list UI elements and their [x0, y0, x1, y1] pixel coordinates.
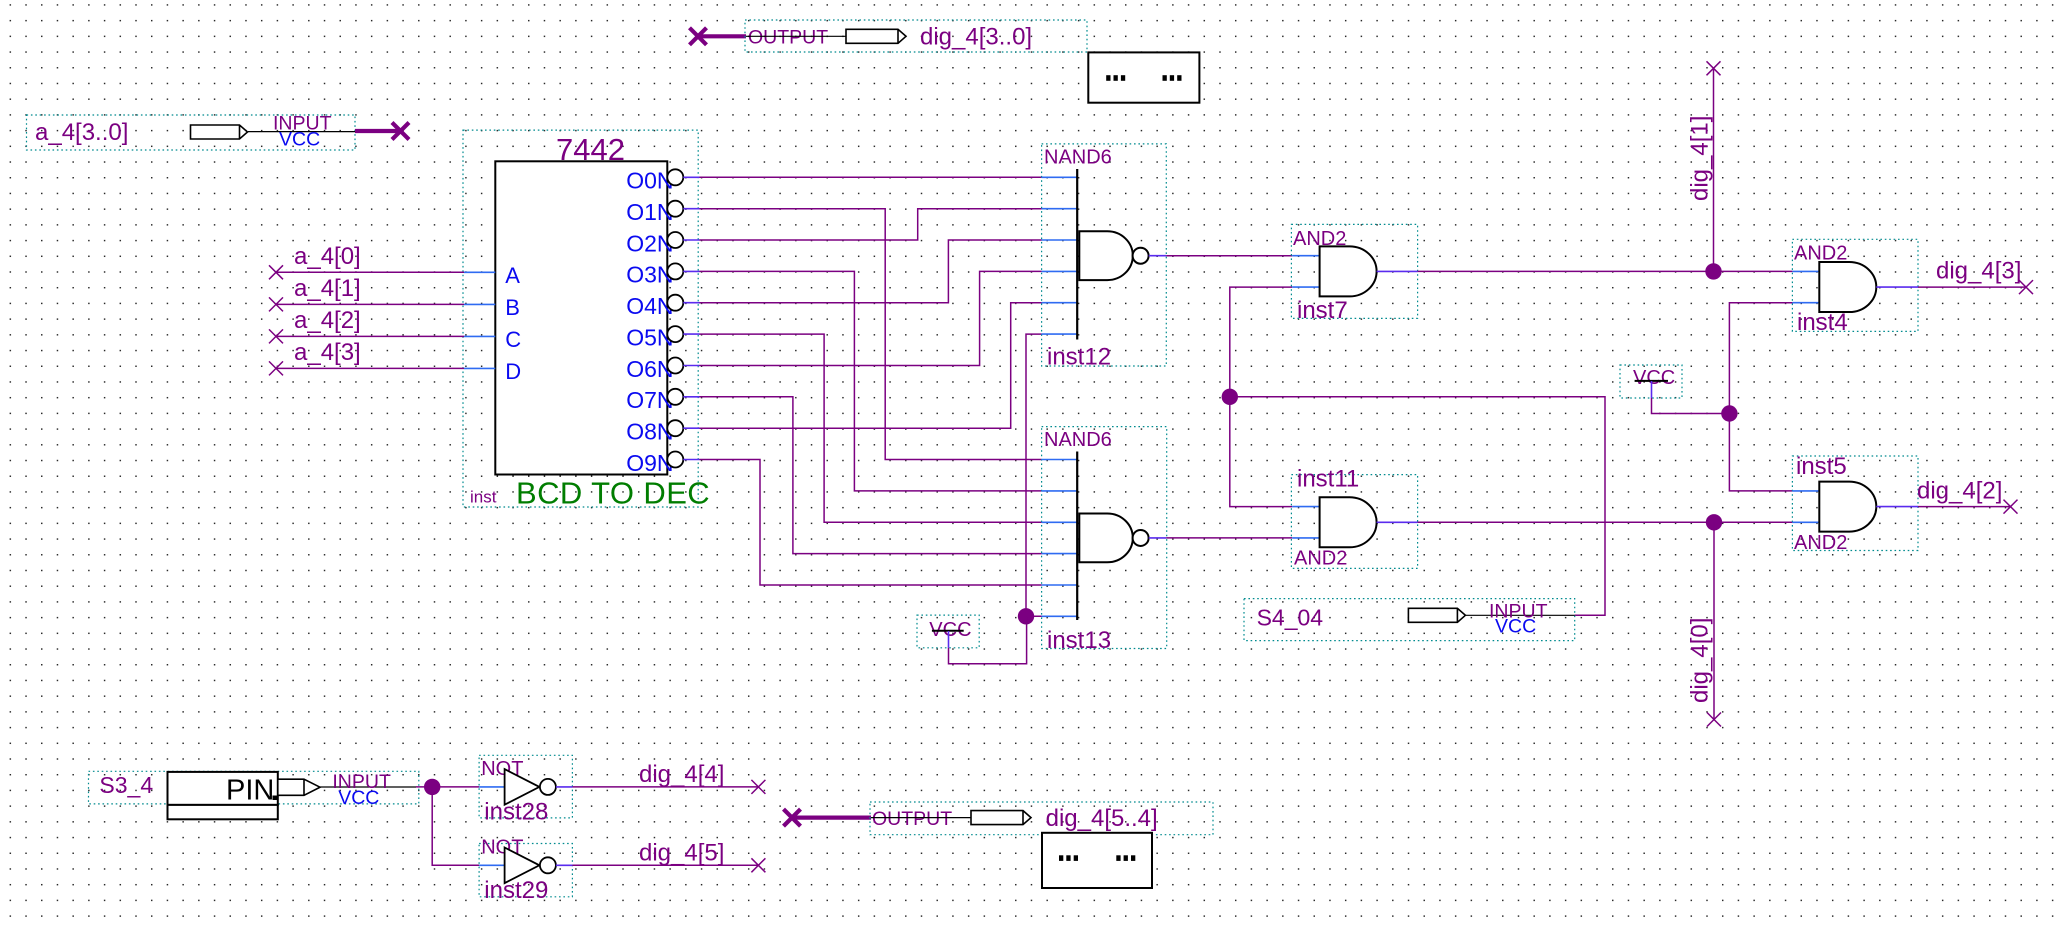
output stub O8N	[683, 427, 699, 429]
junction S3_4 node	[424, 779, 440, 795]
output stub O9N	[683, 459, 699, 461]
svg-text:O1N: O1N	[626, 199, 673, 225]
inst28 input stub	[479, 786, 505, 788]
wire O7N to inst13 pin4	[700, 397, 1042, 554]
svg-text:dig_4[5]: dig_4[5]	[639, 839, 724, 866]
wire dig_4[2]	[1918, 506, 2011, 508]
svg-text:VCC: VCC	[1495, 616, 1536, 638]
output bubble O5N	[667, 326, 683, 342]
inst12 input stub pin4	[1042, 270, 1078, 272]
wire node S4_04 to inst7 pin2 and inst11 pin1	[1230, 287, 1292, 507]
bus stub wire dig_4[3..0]	[699, 34, 746, 38]
output stub O7N	[683, 396, 699, 398]
7442 decoder body	[495, 161, 667, 474]
svg-text:O2N: O2N	[626, 230, 673, 256]
inst5 output stub	[1876, 506, 1918, 508]
svg-text:OUTPUT: OUTPUT	[748, 27, 828, 49]
bus fan-out box dig_4[5..4]	[1042, 833, 1152, 888]
svg-text:dig_4[0]: dig_4[0]	[1687, 618, 1714, 703]
svg-text:dig_4[5..4]: dig_4[5..4]	[1046, 805, 1158, 832]
wire a_4[0] to port A	[276, 271, 464, 273]
output pin shape dig_4[3..0]	[846, 29, 906, 43]
svg-text:BCD TO DEC: BCD TO DEC	[516, 476, 710, 511]
and gate inst4	[1819, 262, 1876, 312]
input stub C	[464, 335, 495, 337]
input stub B	[464, 303, 495, 305]
svg-text:a_4[3..0]: a_4[3..0]	[35, 119, 128, 146]
wire dig_4[0] dropper	[1713, 522, 1715, 719]
wire O1N to inst13 pin1	[700, 209, 1042, 460]
input stub A	[464, 271, 495, 273]
output stub O6N	[683, 365, 699, 367]
inst4 input stubs	[1792, 270, 1819, 272]
inst12 input stub pin6	[1042, 333, 1078, 335]
AND2 inst4 selection box	[1792, 239, 1918, 331]
PIN arrow shape S3_4	[278, 779, 320, 795]
and gate inst11	[1320, 497, 1377, 547]
wire O3N to inst13 pin2	[700, 271, 1042, 491]
inst13 input stub pin3	[1042, 521, 1078, 523]
wire a_4[2] to port C	[276, 335, 464, 337]
svg-text:D: D	[505, 359, 521, 384]
svg-text:S3_4: S3_4	[99, 772, 153, 798]
svg-text:inst28: inst28	[484, 799, 548, 826]
svg-text:a_4[3]: a_4[3]	[294, 339, 361, 366]
AND2 inst7 selection box	[1291, 224, 1417, 318]
wire dig_4[5]	[572, 864, 758, 866]
wire VCC (right) to junction	[1652, 398, 1730, 414]
svg-text:O3N: O3N	[626, 262, 673, 288]
wire dig_4[1] riser	[1713, 68, 1715, 271]
output bubble O2N	[667, 232, 683, 248]
svg-text:NAND6: NAND6	[1044, 147, 1112, 169]
bus stub wire dig_4[5..4]	[793, 815, 871, 819]
wire dig_4[3]	[1918, 286, 2026, 288]
inst13 input stub pin5	[1042, 584, 1078, 586]
x mark a_4[3]	[269, 361, 283, 375]
wire a_4[3] to port D	[276, 367, 464, 369]
bus stub wire a_4[3..0]	[355, 129, 398, 133]
inst13 output stub	[1149, 537, 1167, 539]
x mark dig_4[4]	[751, 780, 765, 794]
inst29 input stub	[479, 864, 505, 866]
pin lead dig_4[5..4]	[871, 817, 971, 819]
pin lead S3_4	[320, 786, 416, 788]
input pin shape a_4[3..0]	[191, 125, 248, 139]
wire O6N to inst12 pin4	[700, 271, 1042, 365]
wire O4N to inst12 pin3	[700, 240, 1042, 303]
inst28 output stub	[556, 786, 573, 788]
x mark a_4[2]	[269, 329, 283, 343]
inst13 input stub pin1	[1042, 459, 1078, 461]
svg-text:O5N: O5N	[626, 324, 673, 350]
svg-text:a_4[1]: a_4[1]	[294, 275, 361, 302]
VCC stub (left)	[948, 631, 950, 648]
svg-text:S4_04: S4_04	[1257, 605, 1324, 631]
inst29 output stub	[556, 864, 573, 866]
output stub O4N	[683, 302, 699, 304]
VCC bar (right)	[1635, 380, 1668, 382]
wire inst13 out to inst11 pin2	[1166, 537, 1292, 539]
inst13 input stub pin6	[1042, 615, 1078, 617]
svg-text:inst7: inst7	[1297, 297, 1348, 324]
output pin shape dig_4[5..4]	[971, 811, 1031, 825]
x mark a_4[0]	[269, 265, 283, 279]
wire O8N to inst12 pin5	[700, 303, 1042, 429]
svg-text:PIN: PIN	[226, 775, 274, 807]
junction node S4_04	[1222, 389, 1238, 405]
svg-text:VCC: VCC	[338, 787, 379, 809]
pin lead dig_4[3..0]	[746, 35, 846, 37]
x mark dig_4[2]	[2004, 500, 2018, 514]
svg-text:AND2: AND2	[1794, 532, 1847, 554]
output bubble O6N	[667, 358, 683, 374]
inst13 input stub pin4	[1042, 553, 1078, 555]
svg-text:inst5: inst5	[1796, 453, 1847, 480]
output pin symbol dig_4[5..4] selection box	[870, 802, 1213, 835]
svg-text:a_4[0]: a_4[0]	[294, 243, 361, 270]
NOT inst28 selection box	[479, 755, 572, 818]
svg-text:O8N: O8N	[626, 419, 673, 445]
output pin symbol dig_4[3..0] selection box	[745, 20, 1087, 52]
svg-text:AND2: AND2	[1294, 548, 1347, 570]
input pin shape S4_04	[1408, 608, 1465, 622]
x mark dig_4[3..0] bus end	[690, 28, 707, 45]
VCC symbol selection box (left)	[917, 615, 979, 648]
inst12 input stub pin1	[1042, 176, 1078, 178]
VCC bar (left)	[932, 630, 964, 632]
input pin symbol S3_4 selection box	[89, 771, 419, 804]
pin lead S4_04	[1466, 614, 1575, 616]
nand gate inst13	[1077, 452, 1148, 621]
wire O0N to inst12 pin1	[700, 176, 1042, 178]
bus fan-out box dig_4[3..0]	[1088, 52, 1199, 102]
output stub O5N	[683, 333, 699, 335]
output stub O3N	[683, 270, 699, 272]
junction dig_4[1]	[1705, 263, 1721, 279]
inst12 output stub	[1149, 255, 1167, 257]
x mark dig_4[0]	[1707, 713, 1721, 727]
output stub O1N	[683, 208, 699, 210]
junction VCC right node	[1721, 405, 1737, 421]
svg-text:O0N: O0N	[626, 168, 673, 194]
x mark dig_4[5..4] bus end	[784, 809, 801, 826]
svg-text:dig_4[2]: dig_4[2]	[1917, 478, 2002, 505]
and gate inst5	[1819, 482, 1876, 532]
not gate inst29	[505, 848, 556, 884]
wire S4_04 input to junction	[1230, 397, 1605, 616]
inst7 output stub	[1377, 270, 1418, 272]
svg-text:inst: inst	[470, 488, 497, 507]
output bubble O9N	[667, 452, 683, 468]
output bubble O0N	[667, 169, 683, 185]
wire inst11 out to inst5 pin2	[1418, 521, 1793, 523]
svg-text:inst29: inst29	[484, 877, 548, 904]
output bubble O8N	[667, 420, 683, 436]
svg-text:VCC: VCC	[279, 129, 320, 151]
VCC stub (right)	[1651, 381, 1653, 398]
AND2 inst11 selection box	[1291, 475, 1417, 569]
inst11 input stubs	[1292, 506, 1319, 508]
x mark dig_4[5]	[751, 858, 765, 872]
wire a_4[1] to port B	[276, 303, 464, 305]
pin lead a_4[3..0]	[248, 131, 355, 133]
input stub D	[464, 367, 495, 369]
output bubble O1N	[667, 201, 683, 217]
inst11 output stub	[1377, 521, 1418, 523]
NAND6 inst12 selection box	[1042, 144, 1167, 366]
inst12 input stub pin2	[1042, 208, 1078, 210]
wire VCC node to inst4 pin2 and inst5 pin1	[1729, 303, 1792, 491]
svg-text:O6N: O6N	[626, 356, 673, 382]
PIN component body S3_4	[168, 772, 278, 805]
VCC symbol selection box (right)	[1620, 365, 1682, 398]
not gate inst28	[505, 769, 556, 805]
svg-text:inst11: inst11	[1297, 466, 1359, 493]
wire inst12 out to inst7 pin1	[1166, 255, 1292, 257]
x mark dig_4[1]	[1707, 61, 1721, 75]
svg-text:7442: 7442	[556, 132, 625, 167]
svg-text:NAND6: NAND6	[1044, 429, 1112, 451]
wire O9N to inst13 pin5	[700, 460, 1042, 586]
svg-text:B: B	[505, 295, 520, 320]
svg-text:a_4[2]: a_4[2]	[294, 307, 361, 334]
input pin symbol S4_04 selection box	[1244, 599, 1575, 641]
x mark dig_4[3]	[2019, 280, 2033, 294]
wire O2N to inst12 pin2	[700, 209, 1042, 240]
wire S3_4 node to inst29	[432, 787, 479, 865]
wire dig_4[4]	[572, 786, 758, 788]
junction dig_4[0]	[1706, 514, 1722, 530]
wire S3_4 to inst28	[416, 786, 479, 788]
svg-text:inst12: inst12	[1047, 344, 1111, 371]
svg-text:O4N: O4N	[626, 293, 673, 319]
output stub O0N	[683, 176, 699, 178]
x mark a_4[3..0] bus end	[392, 123, 409, 140]
output bubble O4N	[667, 295, 683, 311]
inst7 input stubs	[1292, 255, 1319, 257]
inst4 output stub	[1876, 286, 1918, 288]
NOT inst29 selection box	[479, 844, 572, 897]
7442 selection box	[463, 130, 698, 507]
svg-text:dig_4[3..0]: dig_4[3..0]	[920, 24, 1032, 51]
and gate inst7	[1320, 246, 1377, 296]
NAND6 inst13 selection box	[1042, 427, 1167, 649]
x mark a_4[1]	[269, 297, 283, 311]
inst12 input stub pin5	[1042, 302, 1078, 304]
svg-text:OUTPUT: OUTPUT	[872, 808, 952, 830]
output bubble O3N	[667, 263, 683, 279]
svg-text:VCC: VCC	[1633, 367, 1675, 389]
wire VCC (left) to junction	[949, 616, 1027, 663]
junction VCC at inst13 pin6	[1018, 608, 1034, 624]
svg-text:dig_4[3]: dig_4[3]	[1936, 258, 2021, 285]
wire inst7 out to inst4 pin1	[1418, 270, 1793, 272]
svg-text:dig_4[1]: dig_4[1]	[1687, 116, 1714, 201]
wire O5N to inst13 pin3	[700, 334, 1042, 522]
output bubble O7N	[667, 389, 683, 405]
svg-text:A: A	[505, 263, 520, 288]
AND2 inst5 selection box	[1792, 456, 1918, 551]
svg-text:C: C	[505, 327, 521, 352]
inst5 input stubs	[1792, 490, 1819, 492]
inst12 input stub pin3	[1042, 239, 1078, 241]
output stub O2N	[683, 239, 699, 241]
svg-text:O7N: O7N	[626, 387, 673, 413]
input pin symbol a_4[3..0] selection box	[27, 115, 356, 150]
wire VCC node to inst12 pin6 and inst13 pin6	[1026, 334, 1042, 616]
text cursor mark	[273, 796, 278, 801]
svg-text:inst13: inst13	[1047, 627, 1111, 654]
inst13 input stub pin2	[1042, 490, 1078, 492]
svg-text:O9N: O9N	[626, 450, 673, 476]
nand gate inst12	[1077, 169, 1148, 340]
svg-text:dig_4[4]: dig_4[4]	[639, 761, 724, 788]
